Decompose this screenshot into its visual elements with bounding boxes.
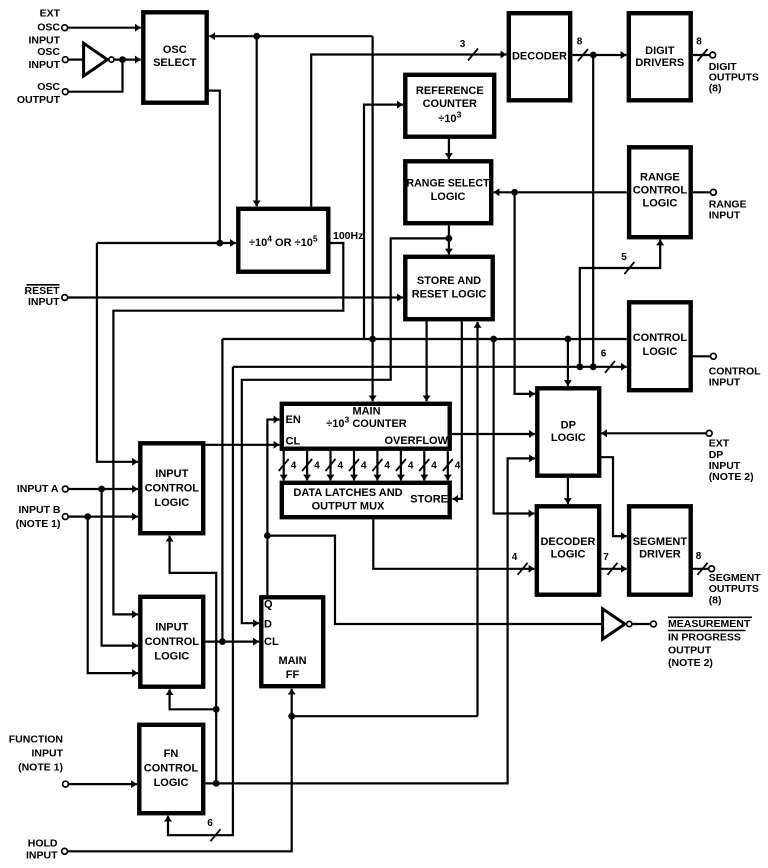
junction 5-bus onto control bus <box>576 363 583 370</box>
junction main net / counter feed <box>369 336 376 343</box>
svg-text:(NOTE 1): (NOTE 1) <box>16 518 61 530</box>
svg-text:REFERENCE: REFERENCE <box>416 85 484 97</box>
svg-text:CL: CL <box>264 636 279 648</box>
terminal CONTROL INPUT <box>711 353 717 359</box>
node label OSC INPUT <box>29 46 61 71</box>
block FN CONTROL LOGIC <box>139 725 203 813</box>
svg-text:6: 6 <box>601 349 607 360</box>
block OSC SELECT <box>143 12 206 102</box>
wire digit 5 4-bit bus <box>376 449 378 481</box>
node label RESET INPUT (active low) <box>24 285 60 308</box>
wire 3-bit bus prescaler to DECODER <box>311 55 506 207</box>
svg-text:COUNTER: COUNTER <box>423 98 477 110</box>
svg-text:5: 5 <box>621 252 627 263</box>
svg-text:LOGIC: LOGIC <box>642 346 677 358</box>
wire digit 3 4-bit bus <box>329 449 331 481</box>
wire RANGE INPUT terminal <box>693 191 710 193</box>
block divide by 10^4 or 10^5 prescaler <box>238 209 328 272</box>
svg-text:100Hz: 100Hz <box>333 230 363 242</box>
svg-text:RANGE: RANGE <box>640 172 680 184</box>
wire INPUT A branch to lower INPUT CONTROL LOGIC <box>102 489 138 646</box>
wire 5-bit bus to RANGE CONTROL LOGIC <box>580 240 660 367</box>
wire 6-bit bus control net <box>233 366 627 368</box>
wire 6-bus down to FN CONTROL LOGIC <box>168 367 233 835</box>
bus slash 5 (to RANGE CONTROL LOGIC) <box>621 252 634 274</box>
block INPUT CONTROL LOGIC upper <box>140 443 203 533</box>
block DECODER <box>509 13 570 100</box>
svg-text:CONTROL: CONTROL <box>144 763 199 775</box>
bus slash 7 (DECODER LOGIC to SEGMENT DRIVER) <box>603 552 617 575</box>
block REFERENCE COUNTER <box>405 75 494 137</box>
bus slash 6 (to CONTROL LOGIC) <box>601 349 615 373</box>
svg-text:INPUT: INPUT <box>29 59 61 71</box>
svg-text:Q: Q <box>264 599 273 611</box>
svg-text:DIGIT: DIGIT <box>645 45 675 57</box>
terminal RANGE INPUT <box>711 189 717 195</box>
wire measurement clock up into STORE AND RESET bottom <box>476 322 478 716</box>
svg-text:LOGIC: LOGIC <box>431 191 466 203</box>
svg-text:INPUT: INPUT <box>709 377 741 389</box>
node label EXT DP INPUT (NOTE 2) <box>709 438 754 484</box>
terminal HOLD INPUT <box>62 848 68 854</box>
svg-text:CONTROL: CONTROL <box>145 636 200 648</box>
svg-text:FUNCTION: FUNCTION <box>9 734 63 746</box>
wire EXT DP INPUT into DP LOGIC right edge <box>601 432 706 434</box>
junction OSC SELECT output tap <box>216 240 223 247</box>
node label SEGMENT OUTPUTS (8) <box>709 572 762 606</box>
wire digit 4 4-bit bus <box>353 449 355 481</box>
svg-text:INPUT: INPUT <box>155 622 188 634</box>
svg-text:(NOTE 2): (NOTE 2) <box>668 657 713 669</box>
svg-text:(8): (8) <box>709 594 722 606</box>
wire down-left feed to upper INPUT CONTROL LOGIC <box>97 243 138 462</box>
terminal INPUT A <box>62 486 68 492</box>
wire node to MAIN FF bottom <box>291 689 293 716</box>
svg-text:CONTROL: CONTROL <box>633 185 688 197</box>
junction range net tap to DP LOGIC <box>511 189 518 196</box>
svg-text:6: 6 <box>207 818 213 829</box>
svg-text:4: 4 <box>512 552 518 563</box>
block CONTROL LOGIC <box>629 302 691 390</box>
junction 8-bus onto control bus <box>590 363 597 370</box>
svg-text:4: 4 <box>408 461 414 472</box>
svg-text:LOGIC: LOGIC <box>551 549 586 561</box>
svg-text:(NOTE 2): (NOTE 2) <box>709 471 754 483</box>
node label MEASUREMENT IN PROGRESS OUTPUT (NOTE 2), active low <box>668 617 752 669</box>
wire main-net vertical to MAIN COUNTER top <box>372 36 374 401</box>
wire 8-bit bus DECODER to DIGIT DRIVERS <box>573 54 627 56</box>
wire OSC INPUT to buffer <box>69 58 84 60</box>
bus slash 8 (SEGMENT OUTPUTS) <box>696 551 708 575</box>
svg-text:8: 8 <box>577 37 583 48</box>
wire MAIN COUNTER overflow to DP LOGIC <box>452 433 535 435</box>
svg-text:MAIN: MAIN <box>352 406 380 418</box>
svg-text:INPUT: INPUT <box>26 850 58 862</box>
svg-text:DECODER: DECODER <box>540 536 595 548</box>
svg-text:RESET LOGIC: RESET LOGIC <box>412 289 487 301</box>
wire digit 6 4-bit bus <box>400 449 402 481</box>
wire measurement buffer output to terminal <box>633 623 651 625</box>
block INPUT CONTROL LOGIC lower <box>140 597 203 687</box>
wire INPUT B <box>69 515 138 517</box>
wire FN CONTROL output to DP LOGIC lower-left input <box>206 458 535 783</box>
block DATA LATCHES AND OUTPUT MUX <box>282 483 450 517</box>
node label DIGIT OUTPUTS (8) <box>709 61 759 94</box>
block DP LOGIC <box>537 388 599 475</box>
svg-text:OSC: OSC <box>37 81 60 93</box>
svg-text:SELECT: SELECT <box>153 57 197 69</box>
svg-text:4: 4 <box>338 461 344 472</box>
wire OSC OUTPUT branch <box>69 60 123 92</box>
wire upper INPUT CONTROL to MAIN COUNTER CL <box>206 444 280 446</box>
wire 100Hz output to lower INPUT CONTROL LOGIC <box>113 243 343 614</box>
svg-text:FN: FN <box>164 748 179 760</box>
block STORE AND RESET LOGIC <box>405 257 492 319</box>
svg-text:D: D <box>264 619 272 631</box>
svg-text:DRIVERS: DRIVERS <box>635 57 684 69</box>
wire REFERENCE COUNTER input <box>364 105 403 339</box>
node label FUNCTION INPUT (NOTE 1) <box>9 734 64 774</box>
svg-text:CL: CL <box>286 435 301 447</box>
bus slash 8 (DECODER to DIGIT DRIVERS) <box>577 37 588 62</box>
terminal EXT DP INPUT <box>706 430 712 436</box>
wire RANGE CONTROL LOGIC to RANGE SELECT LOGIC <box>494 191 627 193</box>
svg-text:CONTROL: CONTROL <box>145 483 200 495</box>
wire digit 2 4-bit bus <box>306 449 308 481</box>
svg-text:LOGIC: LOGIC <box>154 497 189 509</box>
wire branch to MAIN FF D input <box>242 238 449 623</box>
wire prescaler top feed <box>256 36 258 206</box>
svg-text:DP: DP <box>709 449 724 461</box>
svg-text:INPUT: INPUT <box>155 468 188 480</box>
svg-text:RANGE SELECT: RANGE SELECT <box>407 178 490 190</box>
bus slash 8 (DIGIT OUTPUTS) <box>696 37 707 62</box>
junction Q output branch <box>264 532 271 539</box>
terminal MEASUREMENT IN PROGRESS OUTPUT <box>651 621 657 627</box>
svg-text:OSC: OSC <box>37 21 60 33</box>
wire lower INPUT CONTROL to MAIN FF CL <box>206 640 259 642</box>
wire RANGE SELECT LOGIC to STORE AND RESET LOGIC <box>448 226 450 255</box>
svg-text:EXT: EXT <box>709 438 730 450</box>
junction prescaler clock tap <box>253 33 260 40</box>
svg-text:EXT: EXT <box>40 8 61 20</box>
node label CONTROL INPUT <box>709 366 761 389</box>
svg-text:STORE: STORE <box>410 494 448 506</box>
wire RESET INPUT to STORE AND RESET LOGIC <box>68 296 403 298</box>
svg-text:INPUT: INPUT <box>29 35 61 47</box>
svg-text:INPUT B: INPUT B <box>19 504 61 516</box>
svg-text:OUTPUT: OUTPUT <box>17 94 61 106</box>
bus slashes on the eight 4-bit latch buses <box>279 459 453 471</box>
wire DP LOGIC to SEGMENT DRIVER <box>599 457 627 536</box>
wire STORE AND RESET to MAIN COUNTER top <box>426 322 428 402</box>
wire HOLD INPUT up to MAIN FF clock node <box>68 716 292 851</box>
terminal OSC OUTPUT <box>62 89 68 95</box>
wire digit 8 4-bit bus <box>447 449 449 481</box>
svg-text:DP: DP <box>561 420 576 432</box>
svg-text:4: 4 <box>431 461 437 472</box>
wire DATA LATCHES 4-bit bus to DECODER LOGIC <box>373 520 534 569</box>
junction FN output node <box>213 780 220 787</box>
wire digit 1 4-bit bus counter to latches <box>283 449 285 481</box>
svg-text:INPUT: INPUT <box>28 296 60 308</box>
svg-text:INPUT: INPUT <box>32 748 64 760</box>
wire DIGIT DRIVERS to DIGIT OUTPUTS terminal <box>693 54 709 56</box>
wire Q branch to measurement buffer <box>267 536 601 624</box>
junction HOLD / MAIN FF clock node <box>288 713 295 720</box>
junction main net to DECODER LOGIC <box>490 336 497 343</box>
terminal DIGIT OUTPUTS <box>710 52 716 58</box>
svg-text:RANGE: RANGE <box>709 198 747 210</box>
block RANGE SELECT LOGIC <box>405 161 491 223</box>
svg-text:CONTROL: CONTROL <box>633 332 688 344</box>
wire 8-bus vertical from DECODER output down to control net <box>592 55 594 367</box>
wire INPUT B branch to lower INPUT CONTROL LOGIC <box>88 517 138 674</box>
wire prescaler input row <box>97 242 236 244</box>
node label INPUT B (NOTE 1) <box>16 504 61 530</box>
terminal RESET INPUT <box>62 295 68 301</box>
svg-text:HOLD: HOLD <box>28 837 58 849</box>
junction main net at MAIN FF CL <box>219 638 226 645</box>
wire digit 7 4-bit bus <box>423 449 425 481</box>
svg-text:(NOTE 1): (NOTE 1) <box>18 762 63 774</box>
junction main net to DP LOGIC top <box>565 336 572 343</box>
buffer oscillator input inverter <box>84 43 114 76</box>
wire main net to DP LOGIC top <box>567 339 569 386</box>
wire main multiplex net horizontal <box>222 338 626 340</box>
node label OSC OUTPUT <box>17 81 61 106</box>
wire feedback into OSC SELECT right edge <box>209 35 372 37</box>
svg-text:LOGIC: LOGIC <box>551 432 586 444</box>
svg-text:OVERFLOW: OVERFLOW <box>384 435 448 447</box>
svg-text:4: 4 <box>291 461 297 472</box>
node label RANGE INPUT <box>709 198 747 221</box>
svg-text:4: 4 <box>384 461 390 472</box>
bus slash 6 (FN CONTROL LOGIC bus) <box>207 818 220 841</box>
wire branch down to DP LOGIC upper-left input <box>515 192 535 394</box>
svg-text:4: 4 <box>455 461 461 472</box>
svg-text:OSC: OSC <box>37 46 60 58</box>
svg-text:3: 3 <box>460 39 466 50</box>
wire main net drop to MAIN FF CL row <box>221 339 223 642</box>
svg-text:MAIN: MAIN <box>278 655 306 667</box>
svg-text:LOGIC: LOGIC <box>154 651 189 663</box>
junction INPUT A branch <box>98 486 105 493</box>
svg-text:8: 8 <box>696 551 702 562</box>
svg-text:DRIVER: DRIVER <box>639 549 681 561</box>
wire STORE AND RESET to DATA LATCHES store input <box>452 322 461 499</box>
wire buffer output to OSC SELECT <box>115 58 141 60</box>
svg-text:MEASUREMENT: MEASUREMENT <box>668 618 751 630</box>
svg-text:DECODER: DECODER <box>512 51 567 63</box>
svg-text:OUTPUTS: OUTPUTS <box>709 583 759 595</box>
svg-text:LOGIC: LOGIC <box>154 777 189 789</box>
svg-text:DATA LATCHES AND: DATA LATCHES AND <box>293 487 402 499</box>
block MAIN divide-by-10^3 COUNTER <box>282 404 450 449</box>
svg-text:SEGMENT: SEGMENT <box>633 536 688 548</box>
terminal INPUT B <box>62 514 68 520</box>
wire REFERENCE COUNTER to RANGE SELECT LOGIC <box>448 139 450 159</box>
svg-text:OUTPUT MUX: OUTPUT MUX <box>312 501 385 513</box>
wire DP LOGIC to DECODER LOGIC top <box>567 476 569 504</box>
svg-text:(8): (8) <box>709 82 722 94</box>
terminal OSC INPUT <box>62 57 68 63</box>
svg-text:7: 7 <box>603 552 609 563</box>
svg-text:INPUT A: INPUT A <box>17 483 59 495</box>
wire CONTROL INPUT terminal <box>691 355 711 357</box>
value labels 4 on the eight latch buses <box>291 461 461 472</box>
svg-text:OSC: OSC <box>163 44 187 56</box>
terminal SEGMENT OUTPUTS <box>709 566 715 572</box>
junction INPUT B branch <box>84 513 91 520</box>
svg-text:8: 8 <box>696 37 702 48</box>
wire MAIN FF Q up to MAIN COUNTER EN <box>267 420 279 596</box>
junction FN net to lower input control <box>213 706 220 713</box>
block DECODER LOGIC <box>537 506 599 594</box>
wire FN net up to upper INPUT CONTROL LOGIC bottom <box>170 536 217 784</box>
buffer measurement in progress inverter <box>603 609 632 639</box>
bus slash 3 (prescaler to DECODER) <box>460 39 478 61</box>
wire OSC SELECT output down to prescaler input row <box>209 91 220 243</box>
node label HOLD INPUT <box>26 837 58 861</box>
svg-text:OUTPUT: OUTPUT <box>668 645 712 657</box>
block MAIN FF <box>261 597 323 686</box>
svg-text:4: 4 <box>314 461 320 472</box>
wire node to STORE AND RESET vertical <box>292 715 478 717</box>
junction buffer output node <box>119 56 126 63</box>
svg-text:4: 4 <box>361 461 367 472</box>
terminal FUNCTION INPUT <box>63 781 69 787</box>
svg-text:STORE AND: STORE AND <box>417 275 481 287</box>
wire main net to DECODER LOGIC input <box>494 339 535 514</box>
wire INPUT A <box>69 488 138 490</box>
wire EXT OSC INPUT to OSC SELECT <box>68 27 141 29</box>
block SEGMENT DRIVER <box>629 506 691 594</box>
svg-text:LOGIC: LOGIC <box>642 198 677 210</box>
terminal EXT OSC INPUT <box>62 25 68 31</box>
junction range select to store/reset tap <box>446 235 453 242</box>
junction 8-bus tap at DECODER output <box>590 52 597 59</box>
wire 7-bit bus DECODER LOGIC to SEGMENT DRIVER <box>599 568 627 570</box>
bus slash 4 (DATA LATCHES to DECODER LOGIC) <box>512 552 528 575</box>
svg-text:FF: FF <box>286 669 300 681</box>
wire FUNCTION INPUT to FN CONTROL LOGIC <box>69 783 137 785</box>
svg-text:INPUT: INPUT <box>709 210 741 222</box>
block RANGE CONTROL LOGIC <box>629 147 691 237</box>
svg-text:EN: EN <box>286 414 301 426</box>
svg-text:IN PROGRESS: IN PROGRESS <box>668 631 741 643</box>
wire FN net to lower INPUT CONTROL LOGIC bottom <box>170 689 217 709</box>
svg-text:INPUT: INPUT <box>709 460 741 472</box>
wire SEGMENT DRIVER to SEGMENT OUTPUTS terminal <box>691 568 709 570</box>
block DIGIT DRIVERS <box>629 13 691 100</box>
node label EXT OSC INPUT <box>29 8 61 47</box>
